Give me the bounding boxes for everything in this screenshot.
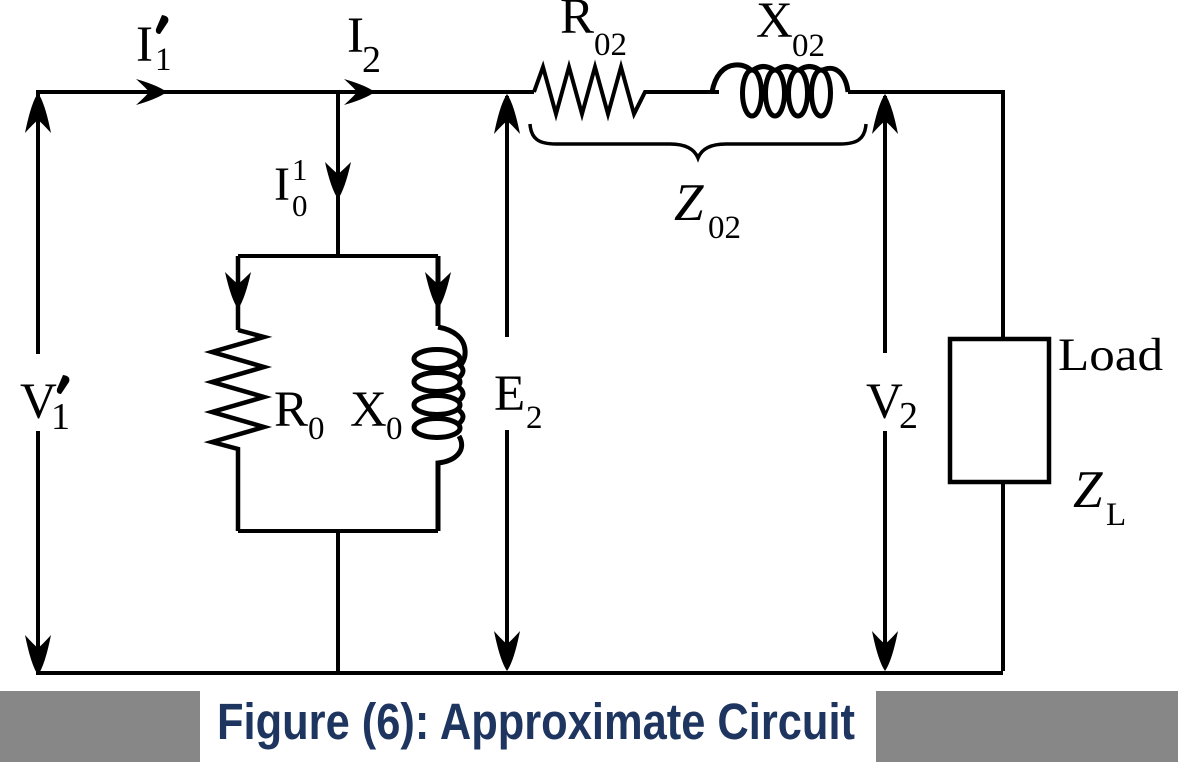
svg-text:Z: Z bbox=[674, 174, 704, 232]
arrowhead E2 down bbox=[494, 631, 520, 671]
arrowhead R0 branch down bbox=[225, 272, 251, 309]
svg-text:I: I bbox=[274, 158, 290, 211]
svg-text:0: 0 bbox=[386, 411, 403, 447]
svg-text:R: R bbox=[274, 382, 308, 438]
inductor X02 bbox=[712, 65, 848, 116]
svg-text:02: 02 bbox=[594, 27, 627, 63]
wire stem below box bbox=[336, 531, 340, 673]
svg-text:2: 2 bbox=[362, 39, 381, 81]
arrowhead V2 down bbox=[872, 631, 898, 671]
wire top right bbox=[848, 90, 1003, 94]
resistor R0 branch bbox=[212, 256, 264, 531]
shunt box bottom bbox=[238, 529, 438, 533]
svg-text:1: 1 bbox=[51, 396, 70, 438]
svg-text:1: 1 bbox=[292, 152, 308, 187]
wire branch I0 bbox=[336, 92, 340, 256]
wire right vertical lower bbox=[1001, 482, 1005, 671]
svg-text:2: 2 bbox=[526, 400, 543, 436]
load box bbox=[950, 339, 1049, 482]
svg-text:02: 02 bbox=[708, 210, 741, 246]
svg-text:1: 1 bbox=[155, 42, 172, 78]
caption bar right bbox=[876, 691, 1178, 762]
svg-text:V: V bbox=[866, 374, 903, 430]
shunt box top bbox=[238, 254, 438, 258]
arrowhead X0 branch down bbox=[425, 272, 451, 309]
arrowhead I0 down bbox=[325, 162, 351, 199]
arrowhead V1 up bbox=[25, 93, 51, 133]
svg-text:R: R bbox=[560, 0, 594, 45]
arrowhead I1 current bbox=[136, 79, 167, 105]
svg-text:X: X bbox=[350, 382, 387, 438]
svg-text:Figure (6): Approximate Circui: Figure (6): Approximate Circuit bbox=[217, 693, 855, 750]
svg-text:02: 02 bbox=[792, 28, 825, 64]
inductor X0 branch bbox=[414, 256, 465, 531]
voltage arrow V2 line bbox=[883, 96, 887, 648]
arrowhead V2 up bbox=[872, 94, 898, 134]
resistor R02 bbox=[534, 67, 719, 114]
arrowhead I2 current bbox=[344, 79, 375, 105]
wire right vertical upper bbox=[1001, 90, 1005, 339]
svg-text:Z: Z bbox=[1073, 461, 1103, 519]
svg-text:I: I bbox=[136, 17, 153, 73]
wire top left bbox=[36, 90, 534, 94]
brace Z02 bbox=[530, 124, 866, 158]
svg-text:0: 0 bbox=[292, 188, 308, 223]
voltage arrow E2 line bbox=[505, 96, 509, 648]
arrowhead V1 down bbox=[25, 635, 51, 675]
voltage arrow V1 line bbox=[36, 92, 40, 652]
svg-text:E: E bbox=[494, 366, 525, 422]
svg-text:Load: Load bbox=[1058, 329, 1163, 381]
svg-text:2: 2 bbox=[899, 395, 918, 437]
svg-text:0: 0 bbox=[308, 411, 325, 447]
caption bar left bbox=[0, 691, 200, 762]
wire bottom bbox=[36, 671, 1003, 675]
svg-text:X: X bbox=[756, 0, 793, 49]
arrowhead E2 up bbox=[494, 94, 520, 134]
svg-text:L: L bbox=[1106, 497, 1126, 533]
